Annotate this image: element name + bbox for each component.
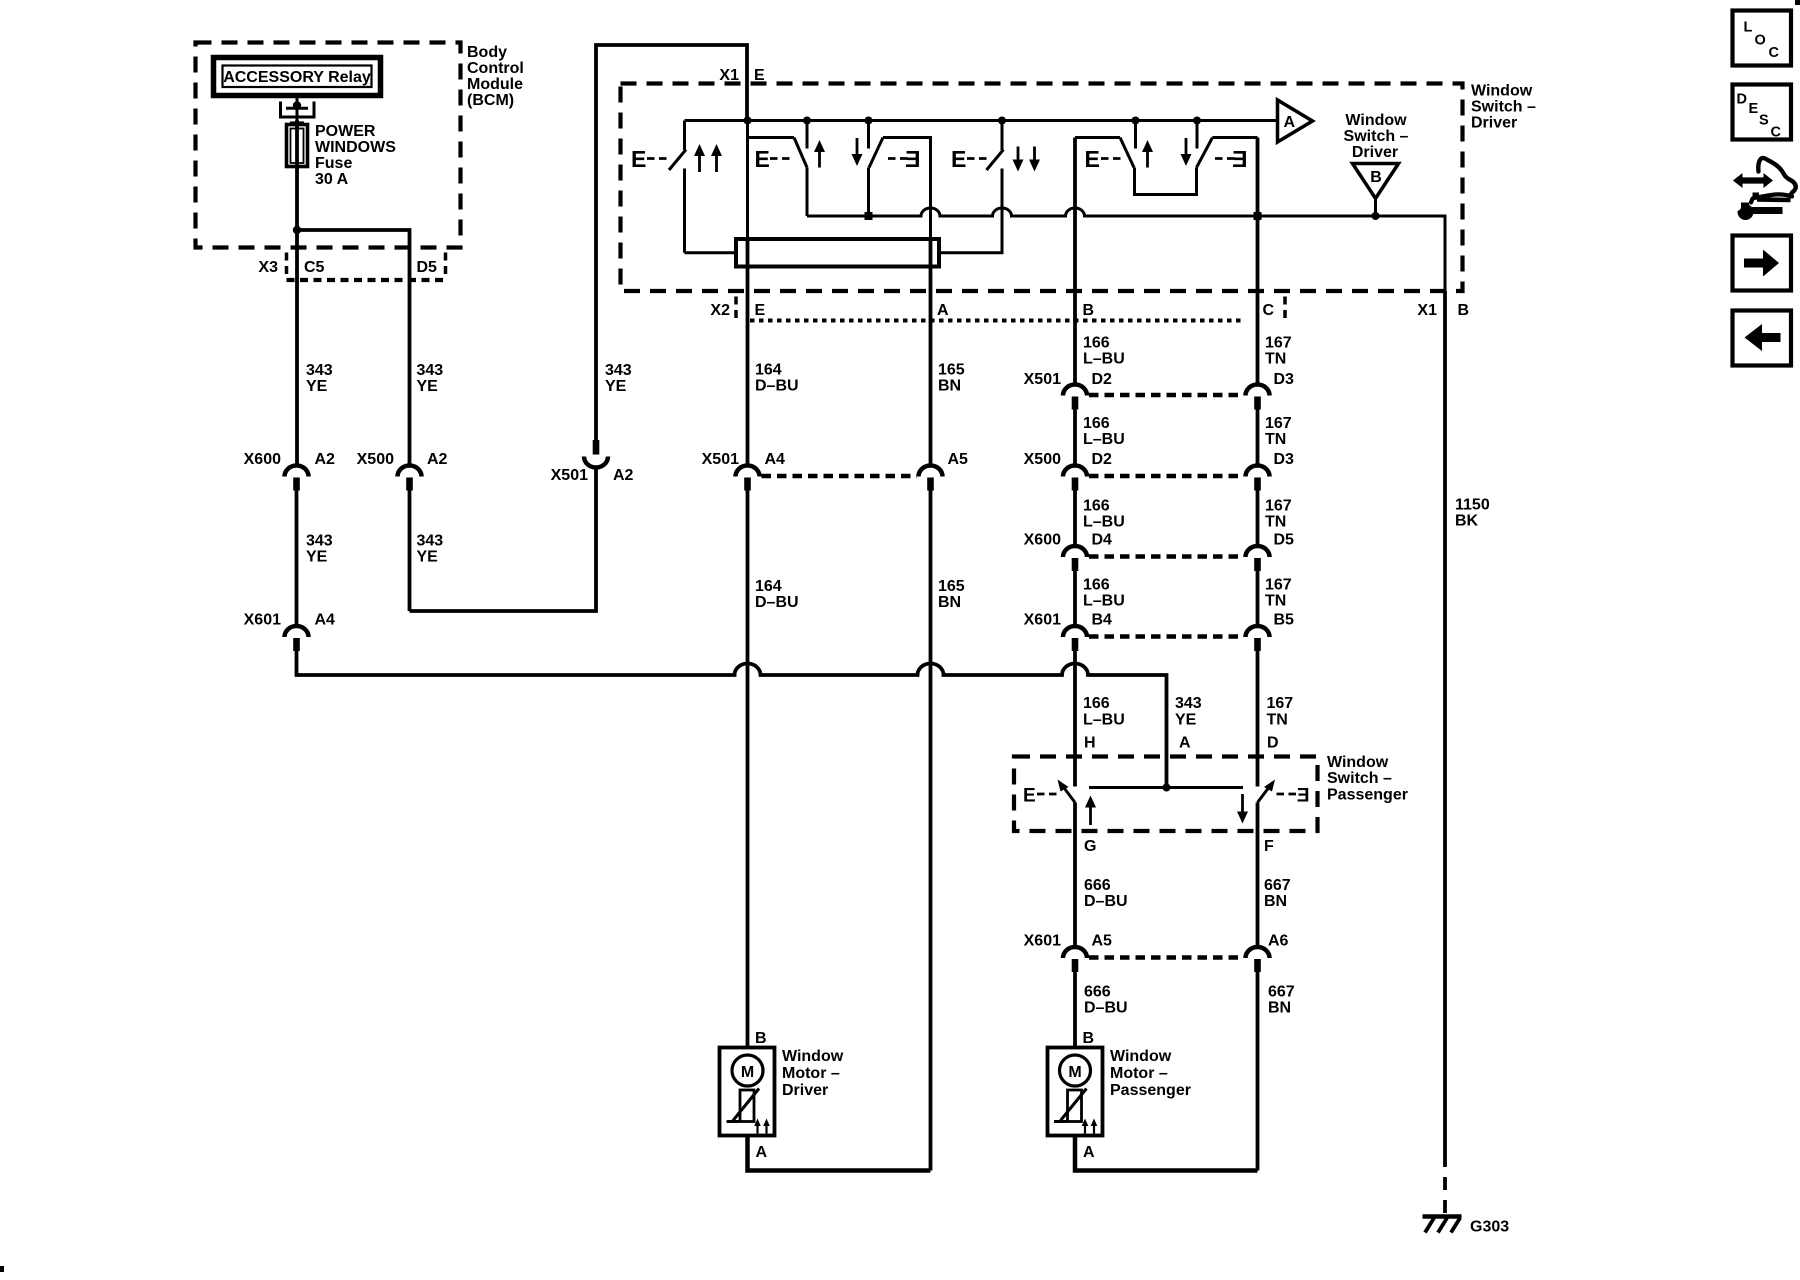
svg-text:165: 165: [938, 362, 965, 379]
node bus junction g2 down: [865, 117, 873, 125]
svg-text:A6: A6: [1268, 933, 1289, 950]
svg-text:YE: YE: [306, 378, 328, 395]
wire dashed pair D2-D3: [1089, 393, 1244, 398]
switch S1 pin E glyph and dashes: [631, 146, 668, 172]
svg-text:166: 166: [1083, 695, 1110, 712]
svg-text:666: 666: [1084, 877, 1111, 894]
svg-text:167: 167: [1267, 695, 1294, 712]
svg-text:Switch –: Switch –: [1471, 99, 1536, 116]
svg-text:D3: D3: [1274, 371, 1295, 388]
switch common bar rectangle: [736, 239, 939, 267]
svg-text:C: C: [1771, 125, 1782, 141]
svg-text:L–BU: L–BU: [1083, 514, 1125, 531]
switch S6 passenger down blade: [1258, 780, 1276, 803]
node bus junction X1 E: [744, 117, 752, 125]
body control module BCM dashed box: [196, 43, 461, 248]
node X1 pin E labels: [719, 67, 765, 84]
svg-text:M: M: [1068, 1064, 1081, 1081]
svg-text:B: B: [1083, 1030, 1095, 1047]
svg-text:B: B: [1083, 302, 1095, 319]
wire 343 YE into passenger A: [1175, 695, 1202, 729]
svg-text:G303: G303: [1470, 1219, 1509, 1236]
svg-text:167: 167: [1265, 498, 1292, 515]
svg-text:164: 164: [755, 362, 782, 379]
window switch driver dashed box: [621, 84, 1463, 292]
svg-text:A2: A2: [613, 467, 634, 484]
svg-text:165: 165: [938, 578, 965, 595]
wire C column 167 TN seg3: [1256, 491, 1260, 547]
connector X501 A4: [702, 451, 785, 491]
svg-text:343: 343: [306, 362, 333, 379]
wire F column 667 BN lower: [1256, 972, 1260, 1171]
svg-text:A4: A4: [315, 612, 336, 629]
svg-text:YE: YE: [605, 378, 627, 395]
switch S3 pin E glyph dashes: [951, 146, 988, 172]
wire E column 164 D-BU lower: [746, 491, 750, 1048]
svg-text:B: B: [1370, 169, 1382, 186]
svg-text:D3: D3: [1274, 451, 1295, 468]
svg-text:X501: X501: [1024, 371, 1061, 388]
switch S2 pin E glyphs dashes arrows: [755, 138, 921, 172]
switch S6 pin E glyph dashes: [1277, 786, 1310, 807]
wire A column 165 BN upper: [929, 239, 933, 467]
svg-text:A: A: [1179, 735, 1191, 752]
svg-text:TN: TN: [1265, 431, 1286, 448]
wire B column 166 L-BU upper: [1073, 138, 1077, 386]
connector X601 A5: [1024, 933, 1112, 973]
svg-text:D5: D5: [417, 259, 438, 276]
fuse label text: [315, 123, 396, 188]
wire G column 666 D-BU: [1073, 803, 1077, 948]
svg-text:X1: X1: [1417, 302, 1437, 319]
svg-text:667: 667: [1268, 984, 1295, 1001]
svg-text:167: 167: [1265, 577, 1292, 594]
svg-text:X600: X600: [244, 451, 281, 468]
svg-text:F: F: [1264, 838, 1274, 855]
switch S3 driver-down express: [940, 121, 1004, 253]
switch S3 double down arrows: [1013, 147, 1041, 172]
wire C5 branch down: [295, 230, 299, 466]
connector X601 A4: [244, 612, 335, 652]
svg-text:POWER: POWER: [315, 123, 376, 140]
relay contact symbol: [281, 95, 315, 124]
wire C column 167 TN seg4: [1256, 571, 1260, 627]
svg-text:E: E: [631, 146, 646, 172]
wire B column 166 L-BU seg3: [1073, 491, 1077, 547]
svg-text:X601: X601: [244, 612, 281, 629]
connector X601 B5: [1246, 612, 1295, 652]
svg-text:Passenger: Passenger: [1327, 787, 1408, 804]
svg-text:X601: X601: [1024, 933, 1061, 950]
motor M2 window motor passenger: [1048, 1030, 1103, 1161]
icon back arrow box: [1733, 311, 1792, 366]
svg-text:B: B: [755, 1030, 767, 1047]
node passenger pins G F labels: [1084, 838, 1274, 855]
wire motor M2 loop to 667 BN: [1075, 1136, 1258, 1171]
svg-text:BN: BN: [938, 378, 961, 395]
connector X501 A2 (pin above cup): [551, 440, 634, 484]
node bus junction g2 up: [803, 117, 811, 125]
svg-text:B4: B4: [1092, 612, 1113, 629]
svg-text:166: 166: [1083, 415, 1110, 432]
triangle B input: [1353, 164, 1399, 217]
wire 343 YE label (C5 branch): [306, 362, 333, 395]
motor M2 label: [1110, 1048, 1191, 1099]
svg-text:A2: A2: [427, 451, 448, 468]
svg-text:WINDOWS: WINDOWS: [315, 139, 396, 156]
icon DESC box: [1733, 85, 1792, 141]
svg-text:Window: Window: [782, 1048, 844, 1065]
svg-text:Body: Body: [467, 44, 507, 61]
svg-text:E: E: [1023, 786, 1036, 807]
switch S4 passenger-window up-down enclosure: [1075, 121, 1258, 195]
svg-text:E: E: [951, 146, 966, 172]
svg-text:C5: C5: [304, 259, 325, 276]
svg-text:D: D: [1267, 735, 1279, 752]
wire C column 167 TN upper: [1256, 138, 1260, 386]
wire C5 branch lower 343 YE label: [306, 533, 333, 566]
wire C column 167 TN seg2: [1256, 410, 1260, 467]
svg-text:A: A: [1083, 1144, 1095, 1161]
svg-text:D2: D2: [1092, 451, 1113, 468]
wire dashed to ground: [1443, 1154, 1447, 1213]
svg-text:E: E: [755, 146, 770, 172]
svg-text:Driver: Driver: [782, 1082, 828, 1099]
svg-text:(BCM): (BCM): [467, 92, 514, 109]
svg-text:D–BU: D–BU: [1084, 893, 1128, 910]
page corner mark bottom left: [0, 1266, 4, 1272]
triangle A output: [1278, 100, 1313, 142]
svg-text:X501: X501: [551, 467, 588, 484]
svg-text:X500: X500: [357, 451, 394, 468]
wire dashed pair A4-A5: [762, 474, 918, 479]
svg-text:Module: Module: [467, 76, 523, 93]
svg-text:A5: A5: [1092, 933, 1113, 950]
wire D5 branch lower 343 YE label: [417, 533, 444, 566]
svg-text:D–BU: D–BU: [1084, 1000, 1128, 1017]
connector X500 D3: [1246, 451, 1295, 491]
svg-text:BN: BN: [1268, 1000, 1291, 1017]
wire X500 A2 down to corner: [408, 491, 412, 612]
svg-text:Fuse: Fuse: [315, 155, 352, 172]
svg-text:A: A: [1284, 114, 1296, 131]
connector X600 A2: [244, 451, 335, 491]
svg-text:343: 343: [605, 362, 632, 379]
svg-text:Window: Window: [1345, 112, 1407, 129]
svg-text:Driver: Driver: [1352, 144, 1398, 161]
window switch driver outside label: [1471, 83, 1536, 132]
svg-text:667: 667: [1264, 877, 1291, 894]
wire 343 YE label (D5 branch): [417, 362, 444, 395]
svg-text:D–BU: D–BU: [755, 378, 799, 395]
svg-text:Motor –: Motor –: [1110, 1065, 1168, 1082]
connector X3 strip: [258, 253, 445, 281]
connector X600 D4: [1024, 532, 1112, 572]
svg-text:L–BU: L–BU: [1083, 712, 1125, 729]
svg-text:B5: B5: [1274, 612, 1295, 629]
svg-text:A5: A5: [948, 451, 969, 468]
node passenger pins H A D labels: [1084, 735, 1279, 752]
svg-text:BK: BK: [1455, 513, 1479, 530]
svg-text:TN: TN: [1265, 514, 1286, 531]
passenger internal bus wire: [1089, 786, 1243, 789]
svg-text:BN: BN: [1264, 893, 1287, 910]
svg-text:Switch –: Switch –: [1327, 770, 1392, 787]
connector X501 A5: [919, 451, 969, 491]
svg-text:X601: X601: [1024, 612, 1061, 629]
svg-text:YE: YE: [417, 549, 439, 566]
node X1 pin B labels: [1417, 302, 1469, 319]
wire X601 A4 to main horizontal run with hops: [297, 651, 1167, 788]
fuse F POWER WINDOWS Fuse 30 A: [287, 120, 308, 230]
junction below fuse: [293, 226, 301, 234]
svg-text:BN: BN: [938, 594, 961, 611]
node mid bus junction C column: [1254, 212, 1262, 220]
svg-text:YE: YE: [306, 549, 328, 566]
svg-text:L–BU: L–BU: [1083, 351, 1125, 368]
svg-text:X501: X501: [702, 451, 739, 468]
switch S5 up arrow: [1085, 796, 1096, 826]
svg-text:D: D: [1737, 92, 1747, 108]
svg-text:167: 167: [1265, 335, 1292, 352]
window switch passenger label: [1327, 754, 1408, 804]
ground G303: [1423, 1217, 1510, 1236]
svg-text:D–BU: D–BU: [755, 594, 799, 611]
wire B column 166 L-BU seg4: [1073, 571, 1077, 627]
svg-text:Control: Control: [467, 60, 524, 77]
icon LOC box: [1733, 11, 1792, 66]
svg-text:E: E: [1749, 101, 1759, 117]
svg-text:TN: TN: [1267, 712, 1288, 729]
wire B column 166 L-BU seg5 to H: [1073, 651, 1077, 787]
switch S1 double up arrows: [694, 144, 722, 172]
svg-text:X500: X500: [1024, 451, 1061, 468]
svg-text:E: E: [1085, 146, 1100, 172]
svg-text:166: 166: [1083, 335, 1110, 352]
connector X501 D2: [1024, 371, 1112, 410]
svg-text:E: E: [755, 302, 766, 319]
motor M1 window motor driver: [720, 1030, 775, 1161]
svg-text:E: E: [905, 146, 920, 172]
node bus junction g3: [998, 117, 1006, 125]
svg-text:666: 666: [1084, 984, 1111, 1001]
svg-text:X3: X3: [258, 259, 278, 276]
svg-text:TN: TN: [1265, 351, 1286, 368]
svg-text:Window: Window: [1327, 754, 1389, 771]
wire E column 164 D-BU upper: [746, 239, 750, 467]
svg-text:166: 166: [1083, 577, 1110, 594]
svg-text:Motor –: Motor –: [782, 1065, 840, 1082]
connector X601 A6: [1246, 933, 1289, 973]
svg-text:Window: Window: [1110, 1048, 1172, 1065]
wire 343 YE label (X501 A2 branch): [605, 362, 632, 395]
node mid bus junction g2 down: [865, 212, 873, 220]
svg-text:167: 167: [1265, 415, 1292, 432]
switch S5 passenger up blade: [1058, 780, 1076, 803]
switch S4 pin E glyphs dashes arrows: [1085, 138, 1248, 172]
svg-text:166: 166: [1083, 498, 1110, 515]
wire B column 166 L-BU seg2: [1073, 410, 1077, 467]
svg-text:C: C: [1769, 45, 1780, 61]
svg-text:Switch –: Switch –: [1344, 128, 1409, 145]
wire top feed run to X1 E: [596, 45, 747, 440]
svg-text:A4: A4: [765, 451, 786, 468]
icon schematic reference scribble: [1732, 158, 1796, 220]
svg-text:TN: TN: [1265, 593, 1286, 610]
svg-text:S: S: [1759, 113, 1769, 129]
svg-text:L–BU: L–BU: [1083, 431, 1125, 448]
switch S1 driver-up express: drop blade contact: [669, 121, 737, 253]
connector X600 D5: [1246, 532, 1295, 572]
svg-text:YE: YE: [1175, 712, 1197, 729]
connector X2 strip: [710, 297, 1285, 324]
motor M1 label: [782, 1048, 844, 1099]
svg-text:Driver: Driver: [1471, 115, 1517, 132]
window switch driver inner label: [1344, 112, 1409, 161]
node passenger bus junction A: [1163, 784, 1171, 792]
mid bus wire with hops to X1 B: [807, 208, 1445, 291]
wire X1 B 1150 BK down: [1443, 291, 1447, 1154]
switch S2 driver up-down enclosure: [748, 121, 931, 239]
svg-text:A: A: [937, 302, 949, 319]
wire motor M1 loop to 165 BN: [748, 1136, 931, 1171]
wire dashed pair B4-B5: [1089, 634, 1244, 639]
svg-text:C: C: [1263, 302, 1275, 319]
svg-text:YE: YE: [417, 378, 439, 395]
svg-text:343: 343: [306, 533, 333, 550]
switch S5 pin E glyph dashes: [1023, 786, 1057, 807]
svg-text:X600: X600: [1024, 532, 1061, 549]
svg-text:D5: D5: [1274, 532, 1295, 549]
svg-text:343: 343: [417, 362, 444, 379]
window switch passenger dashed box: [1014, 757, 1318, 832]
svg-text:Window: Window: [1471, 83, 1533, 100]
svg-text:30 A: 30 A: [315, 171, 349, 188]
svg-text:343: 343: [1175, 695, 1202, 712]
wire X501 A2 down to corner joining D5 branch: [410, 468, 597, 612]
node mid bus junction triangle B: [1372, 212, 1380, 220]
svg-text:ACCESSORY Relay: ACCESSORY Relay: [223, 69, 371, 86]
svg-text:E: E: [1232, 146, 1247, 172]
svg-text:A: A: [756, 1144, 768, 1161]
wire C column 167 TN seg5 to D: [1256, 651, 1260, 787]
connector X500 A2: [357, 451, 448, 491]
icon forward arrow box: [1733, 236, 1792, 291]
svg-text:O: O: [1755, 33, 1766, 49]
svg-text:E: E: [1297, 786, 1310, 807]
connector X500 D2: [1024, 451, 1112, 491]
main bus wire in switch: [685, 119, 1278, 122]
connector X601 B4: [1024, 612, 1112, 652]
switch S6 down arrow: [1237, 794, 1248, 824]
page corner mark top right: [1795, 0, 1800, 5]
wire F column 667 BN: [1256, 803, 1260, 948]
svg-text:D4: D4: [1092, 532, 1113, 549]
wire dashed pair X500 D2-D3: [1089, 474, 1244, 479]
svg-text:X2: X2: [710, 302, 730, 319]
svg-text:H: H: [1084, 735, 1096, 752]
svg-text:L: L: [1744, 20, 1753, 36]
connector X501 D3: [1246, 371, 1295, 410]
svg-text:G: G: [1084, 838, 1096, 855]
relay K ACCESSORY Relay box: [214, 58, 381, 96]
svg-text:Passenger: Passenger: [1110, 1082, 1191, 1099]
svg-text:A2: A2: [315, 451, 336, 468]
svg-text:M: M: [741, 1064, 754, 1081]
wire A column 165 BN lower: [929, 491, 933, 1171]
svg-text:343: 343: [417, 533, 444, 550]
svg-text:L–BU: L–BU: [1083, 593, 1125, 610]
BCM label text: [467, 44, 524, 109]
wire junction to D5 branch: [297, 230, 410, 466]
node bus junction g4 down: [1193, 117, 1201, 125]
wire G column 666 D-BU lower: [1073, 972, 1077, 1048]
svg-text:164: 164: [755, 578, 782, 595]
node bus junction g4 up: [1132, 117, 1140, 125]
svg-text:B: B: [1458, 302, 1470, 319]
wire dashed pair D4-D5: [1089, 554, 1244, 559]
wire dashed pair A5-A6: [1089, 955, 1244, 960]
svg-text:1150: 1150: [1455, 497, 1490, 514]
wire X600 A2 to X601 A4: [295, 491, 299, 627]
svg-text:D2: D2: [1092, 371, 1113, 388]
